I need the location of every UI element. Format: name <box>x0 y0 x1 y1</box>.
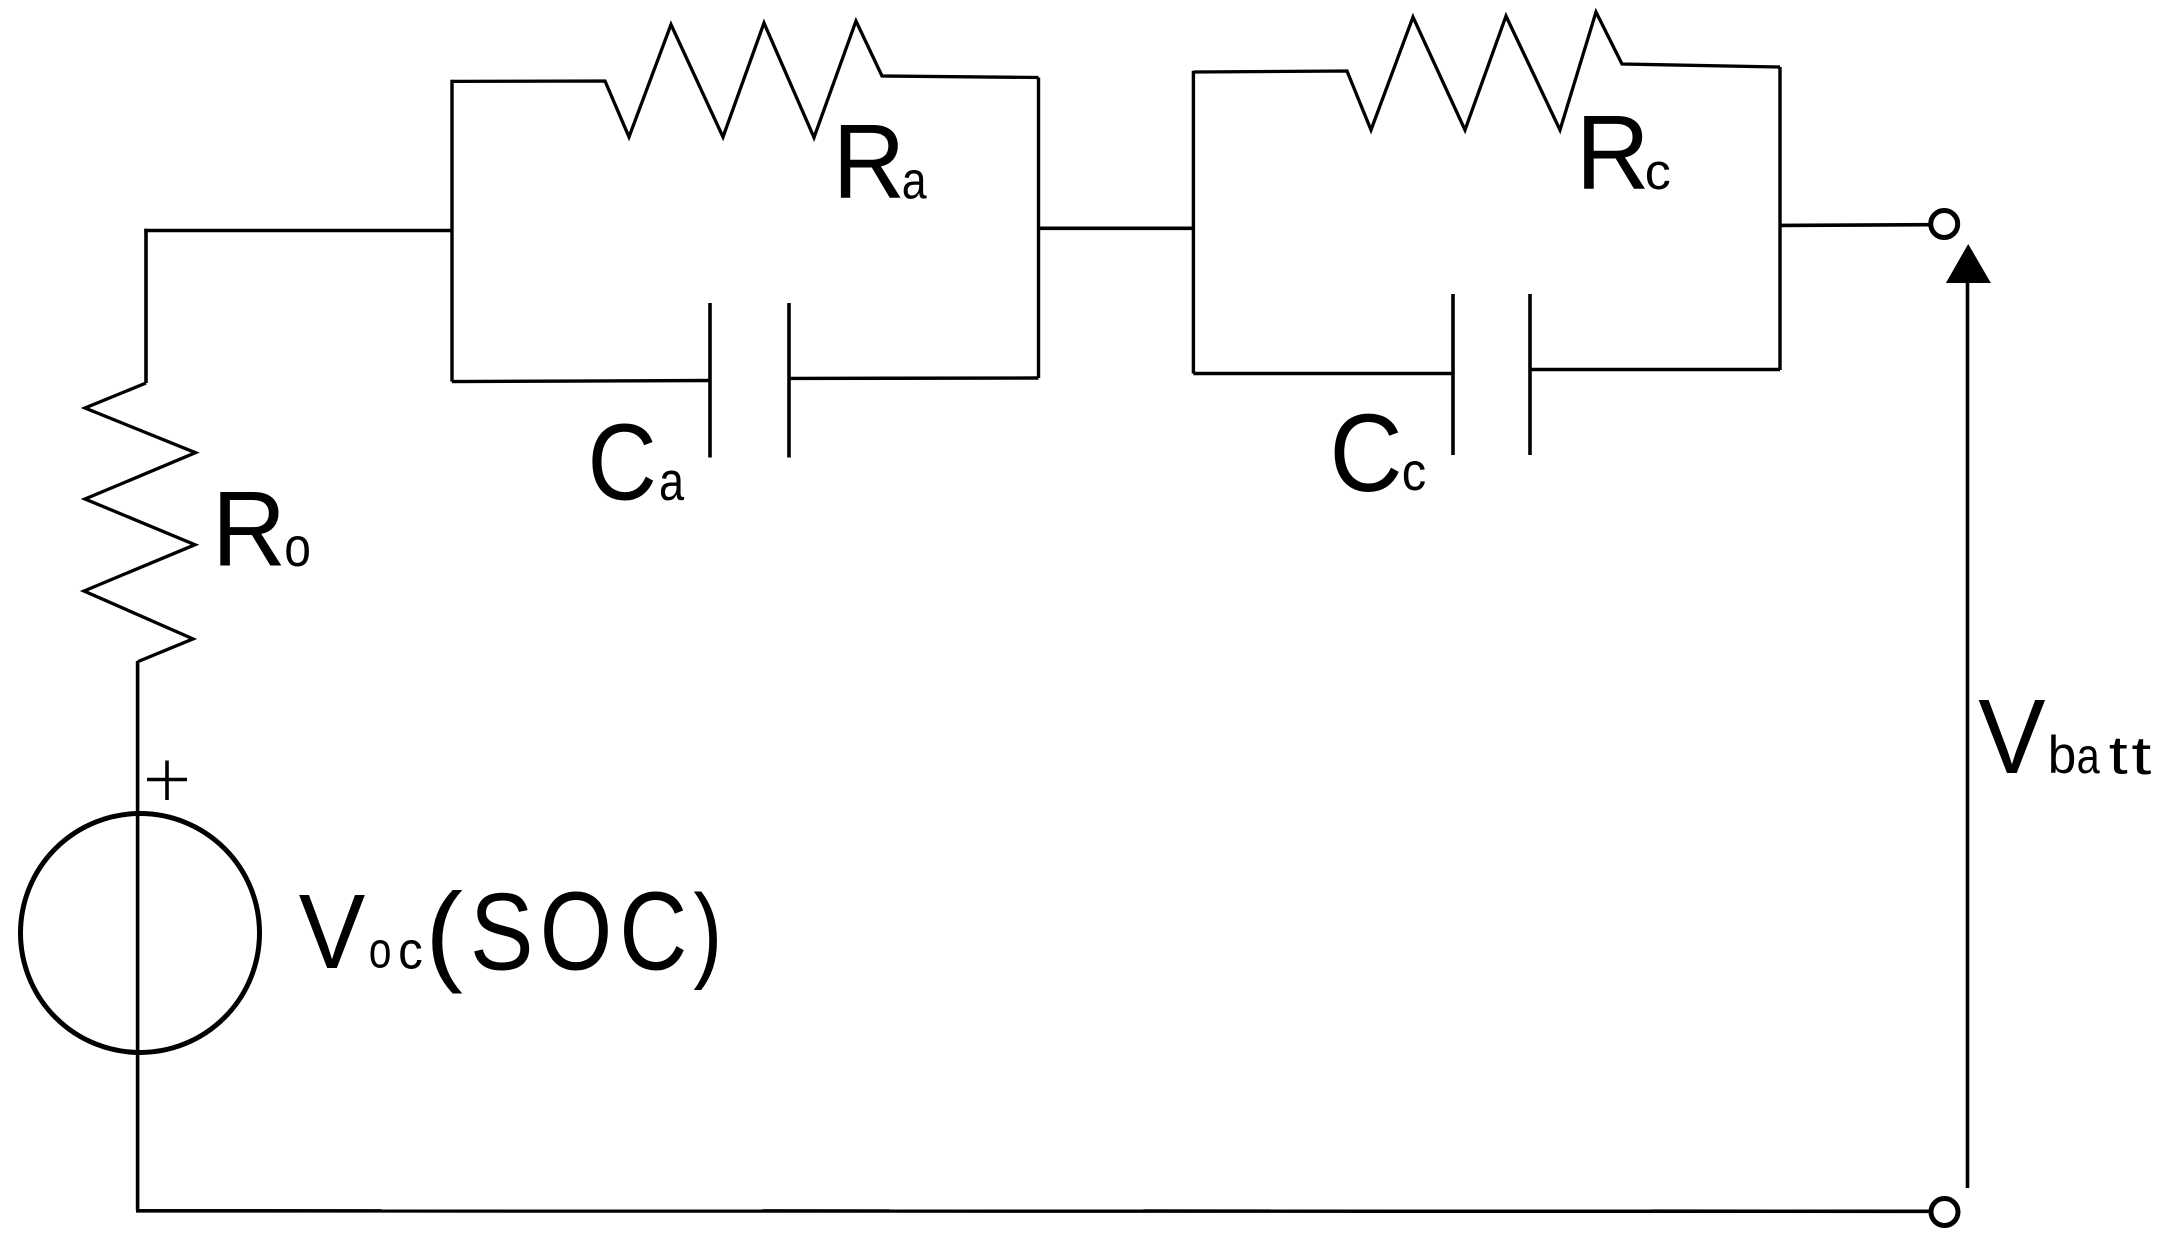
svg-text:t: t <box>2131 726 2151 786</box>
svg-text:V: V <box>1978 677 2045 796</box>
svg-text:b: b <box>2048 727 2077 786</box>
svg-text:t: t <box>2109 726 2128 785</box>
svg-text:S: S <box>470 870 534 993</box>
label Rc <box>1576 95 1671 213</box>
svg-text:a: a <box>902 152 928 210</box>
label Ca <box>588 401 685 523</box>
svg-text:R: R <box>212 470 286 589</box>
wire: bottom rail <box>136 1209 1930 1213</box>
svg-text:): ) <box>693 872 722 991</box>
svg-text:c: c <box>398 921 423 980</box>
wire: RC cell C left edge <box>1192 71 1195 374</box>
wire: RC cell C right edge <box>1778 67 1781 370</box>
capacitor Cc (plates in cell C bottom edge) <box>1193 294 1780 455</box>
svg-text:a: a <box>2077 727 2101 784</box>
voltage source V_oc circle <box>21 814 260 1053</box>
svg-text:c: c <box>1645 143 1671 200</box>
capacitor Ca (plates in cell A bottom edge) <box>452 303 1039 458</box>
svg-text:o: o <box>284 516 311 578</box>
wire: top horizontal from left branch to Ra cell <box>144 229 452 233</box>
svg-text:a: a <box>659 451 684 512</box>
svg-text:(: ( <box>425 870 463 995</box>
wire: left vertical upper segment <box>144 229 148 383</box>
svg-text:C: C <box>619 869 687 993</box>
label V_batt <box>1978 677 2151 796</box>
polarity plus sign of source <box>147 761 187 801</box>
label Ra <box>833 101 928 220</box>
wire: RC cell A left edge <box>450 80 453 382</box>
wire: left vertical through voltage source down to bottom rail <box>136 661 140 1210</box>
svg-text:C: C <box>1330 392 1403 515</box>
svg-text:R: R <box>1576 95 1650 213</box>
label R0 <box>212 470 311 589</box>
svg-text:R: R <box>833 101 906 220</box>
V_batt measurement arrow <box>1946 244 1991 1188</box>
svg-text:o: o <box>369 921 392 979</box>
label Cc <box>1330 392 1427 515</box>
wire: RC cell A right edge <box>1037 78 1040 379</box>
svg-text:O: O <box>540 868 613 993</box>
resistor Ra (zigzag along cell A top edge) <box>452 21 1039 138</box>
terminal: positive output (top-right open circle) <box>1931 211 1958 238</box>
terminal: negative output (bottom-right open circle) <box>1931 1199 1958 1226</box>
svg-text:V: V <box>299 872 366 991</box>
resistor Rc (zigzag along cell C top edge) <box>1193 12 1780 130</box>
wire: link to positive terminal <box>1780 223 1929 227</box>
svg-text:C: C <box>588 401 657 523</box>
label V_oc(SOC) <box>299 868 723 994</box>
svg-text:c: c <box>1402 441 1426 502</box>
wire: middle link between RC cells <box>1039 227 1194 231</box>
resistor R0 (vertical zigzag) <box>84 383 196 662</box>
